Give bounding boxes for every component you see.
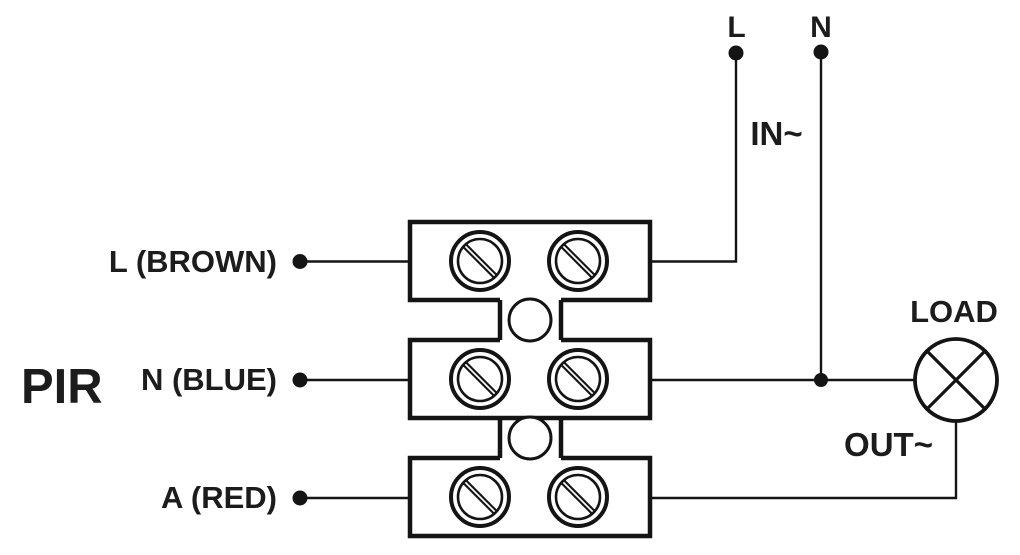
screw terminal TB1-3a (A row, left) [451, 468, 509, 526]
svg-text:L (BROWN): L (BROWN) [109, 244, 277, 279]
svg-text:N (BLUE): N (BLUE) [141, 362, 277, 397]
wire: N (BLUE) lead to TB1-2a [300, 379, 410, 381]
screw terminal TB1-2b (N row, right) [549, 350, 607, 408]
wire: TB1-2b to lamp (N row) [650, 379, 915, 381]
mounting hole between TB1 sections 2-3 [509, 417, 551, 459]
wire: N supply down to junction [820, 52, 822, 380]
junction: N wire to lamp wire [814, 373, 828, 387]
svg-text:OUT~: OUT~ [844, 426, 933, 463]
node: N (BLUE) lead dot [293, 373, 308, 388]
svg-text:IN~: IN~ [750, 115, 802, 152]
mounting hole between TB1 sections 1-2 [509, 299, 551, 341]
node: L (BROWN) lead dot [293, 254, 308, 269]
terminal block TB1 body (3-way connector strip outline) [410, 222, 650, 536]
screw terminal TB1-1b (L row, right) [549, 232, 607, 290]
svg-text:LOAD: LOAD [910, 294, 998, 329]
svg-text:A (RED): A (RED) [161, 480, 277, 515]
wire: L (BROWN) lead to TB1-1a [300, 260, 410, 262]
svg-text:L: L [727, 11, 745, 44]
node L (supply live terminal dot) [729, 46, 744, 61]
wire: L supply down to TB1-1b [650, 53, 736, 262]
svg-text:PIR: PIR [21, 360, 103, 414]
node N (supply neutral terminal dot) [814, 45, 829, 60]
screw terminal TB1-1a (L row, left) [451, 232, 509, 290]
node: A (RED) lead dot [293, 491, 308, 506]
wire: lamp bottom to TB1-3b (A row) [650, 421, 956, 498]
screw terminal TB1-3b (A row, right) [549, 468, 607, 526]
svg-text:N: N [810, 11, 832, 44]
wire: A (RED) lead to TB1-3a [300, 497, 410, 499]
lamp LOAD (circle with X) [915, 339, 997, 421]
screw terminal TB1-2a (N row, left) [451, 350, 509, 408]
